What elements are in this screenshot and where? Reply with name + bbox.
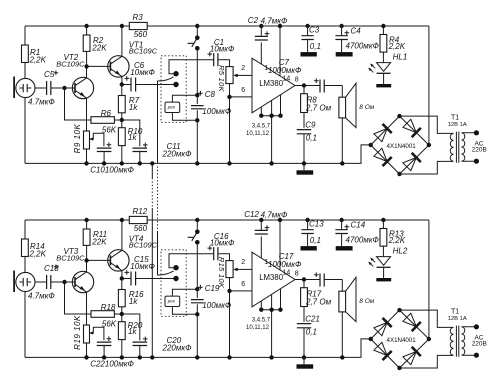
loudspeaker BA (bottom) xyxy=(339,277,375,359)
wire bridge plus to rail (bottom) xyxy=(428,220,430,339)
wire pin8 output (top) xyxy=(295,85,304,87)
wire C8 to ground (top) xyxy=(196,120,198,163)
svg-text:8 Ом: 8 Ом xyxy=(359,298,374,305)
connector pin 2 (top) xyxy=(173,82,178,87)
capacitor C17 xyxy=(268,252,342,287)
trimmer R19 xyxy=(73,315,90,360)
wire VT4 emitter (bottom) xyxy=(121,271,123,279)
svg-text:100мкФ: 100мкФ xyxy=(202,301,232,310)
wire left column (bottom) xyxy=(24,220,26,357)
trimmer R9 xyxy=(73,123,90,165)
svg-text:12В 1А: 12В 1А xyxy=(448,122,467,128)
connector socket X (top) xyxy=(161,56,186,123)
svg-text:HL1: HL1 xyxy=(393,53,408,62)
transformer T1 (top) xyxy=(448,114,479,163)
resistor R18 xyxy=(91,303,122,329)
wire VT2 emitter (top) xyxy=(86,98,88,131)
AC mains terminals 220V (bottom) xyxy=(472,334,487,347)
capacitor across R20 (bottom) xyxy=(122,314,148,360)
svg-text:12В 1А: 12В 1А xyxy=(448,316,467,322)
wire pin1 bypass (top) xyxy=(260,42,262,64)
svg-text:220мкФ: 220мкФ xyxy=(162,343,193,352)
svg-text:R6: R6 xyxy=(101,109,112,118)
bridge rectifier 4X1N4001 (top) xyxy=(369,114,432,176)
svg-text:0,1: 0,1 xyxy=(310,42,321,51)
ground symbol main (bottom) xyxy=(297,364,314,368)
wire pin1 bypass (bottom) xyxy=(260,236,262,258)
wire pin6 (bottom) xyxy=(230,290,253,292)
resistor R11 xyxy=(83,218,107,261)
ground symbol C4 (top) xyxy=(336,52,353,56)
svg-text:C13: C13 xyxy=(309,220,324,229)
wire switch to C8 (top) xyxy=(196,48,198,95)
wire recorder box top (top) xyxy=(172,95,197,102)
wire bridge AC top (bottom) xyxy=(400,310,454,327)
resistor R14 xyxy=(22,239,47,258)
svg-text:2,2K: 2,2K xyxy=(29,55,47,64)
wire R9 wiper (top) xyxy=(90,133,104,146)
svg-text:С10100мкФ: С10100мкФ xyxy=(90,165,134,174)
resistor R16 xyxy=(118,279,144,317)
wire R15 bottom to ground (bottom) xyxy=(229,291,231,358)
svg-text:C12: C12 xyxy=(244,210,259,219)
svg-text:C3: C3 xyxy=(309,26,320,35)
wire bridge AC bottom (bottom) xyxy=(400,355,454,368)
svg-text:1k: 1k xyxy=(128,327,137,336)
wire VT1 collector to rail (top) xyxy=(121,26,123,56)
wire recorder box bottom (top) xyxy=(172,113,197,121)
capacitor C5 xyxy=(28,70,62,107)
microphone BM (bottom) xyxy=(14,271,35,293)
svg-text:0,1: 0,1 xyxy=(306,327,317,336)
wire bridge AC top (top) xyxy=(400,116,454,133)
svg-text:220В: 220В xyxy=(472,147,487,154)
svg-text:560: 560 xyxy=(134,30,148,39)
transistor VT1 xyxy=(108,40,158,77)
ground symbol C13 (bottom) xyxy=(301,246,317,250)
switch SA (bottom) xyxy=(188,218,200,245)
potentiometer R5 xyxy=(217,65,233,99)
svg-text:R9 10K: R9 10K xyxy=(73,123,82,153)
resistor R2 xyxy=(83,24,107,67)
svg-text:C14: C14 xyxy=(351,221,366,230)
svg-text:2,7 Ом: 2,7 Ом xyxy=(305,298,332,307)
wire pin8 output (bottom) xyxy=(295,279,304,281)
wire R5 bottom to ground (top) xyxy=(229,97,231,163)
svg-text:100мкФ: 100мкФ xyxy=(202,107,232,116)
ground symbol main (top) xyxy=(297,170,314,174)
svg-text:2: 2 xyxy=(241,65,245,72)
wire connector pin1 to C16 (bottom) xyxy=(169,254,214,268)
recorder box (top) xyxy=(165,102,180,112)
svg-text:1k: 1k xyxy=(129,297,138,306)
svg-text:C8: C8 xyxy=(205,90,216,99)
svg-text:10мкФ: 10мкФ xyxy=(210,238,235,247)
AC mains terminals 220V (top) xyxy=(472,140,487,153)
ground symbol HL2 (bottom) xyxy=(376,278,391,281)
wire VT2 base (top) xyxy=(65,87,76,89)
dashed link between connector arms xyxy=(157,167,159,233)
svg-text:LM380: LM380 xyxy=(259,273,284,282)
wire connector pin1 to C1 (top) xyxy=(169,60,214,74)
svg-text:8: 8 xyxy=(295,77,299,84)
svg-text:R19 10K: R19 10K xyxy=(73,315,82,350)
wire switch to C19 (bottom) xyxy=(196,242,198,289)
wire C19 to ground (bottom) xyxy=(196,314,198,357)
capacitor C8 xyxy=(191,90,232,122)
svg-text:С22100мкФ: С22100мкФ xyxy=(90,359,134,368)
potentiometer R15 xyxy=(217,257,233,293)
resistor R10 xyxy=(118,120,142,166)
svg-text:10,11,12: 10,11,12 xyxy=(246,131,270,137)
feedback wire node A down (top) xyxy=(65,88,92,120)
svg-text:C9: C9 xyxy=(305,121,316,130)
svg-text:220мкФ: 220мкФ xyxy=(162,149,193,158)
capacitor C9 xyxy=(297,121,317,166)
svg-text:R15 10K: R15 10K xyxy=(217,257,226,289)
svg-text:14: 14 xyxy=(283,75,291,82)
ground symbol HL1 (top) xyxy=(376,84,391,87)
svg-text:C18: C18 xyxy=(44,264,59,273)
wire R15 wiper to pin2 (bottom) xyxy=(237,268,252,270)
op-amp IC LM380 (top) xyxy=(252,58,295,113)
svg-text:10мкФ: 10мкФ xyxy=(130,262,155,271)
connector socket X (bottom) xyxy=(161,250,186,316)
resistor R12 xyxy=(122,207,197,233)
svg-text:4X1N4001: 4X1N4001 xyxy=(387,337,417,344)
ground symbol C3 (top) xyxy=(301,52,317,56)
svg-text:6: 6 xyxy=(241,281,245,288)
wire R19 wiper (bottom) xyxy=(90,327,104,340)
capacitor C10 xyxy=(90,142,134,174)
wire bridge AC bottom (top) xyxy=(400,161,454,174)
svg-text:2,2K: 2,2K xyxy=(388,42,406,51)
capacitor C3 xyxy=(301,24,320,52)
wire connector switch arm bottom channel xyxy=(158,232,174,275)
svg-text:1000мкФ: 1000мкФ xyxy=(268,260,302,269)
resistor R6 xyxy=(91,109,122,135)
svg-text:C5: C5 xyxy=(44,70,55,79)
svg-text:BC109C: BC109C xyxy=(56,59,85,68)
capacitor C15 xyxy=(122,255,176,285)
wire ground pins 3,4,5,7,10,11,12 (bottom) xyxy=(261,289,280,358)
svg-text:R5 10K: R5 10K xyxy=(217,65,226,93)
connector pin 2 (bottom) xyxy=(173,276,178,281)
svg-text:10мкФ: 10мкФ xyxy=(210,44,235,53)
capacitor C14 xyxy=(335,218,379,246)
microphone BM (top) xyxy=(14,77,35,99)
recorder box (bottom) xyxy=(165,296,180,306)
svg-text:1k: 1k xyxy=(128,133,137,142)
svg-text:1k: 1k xyxy=(129,103,138,112)
svg-text:LM380: LM380 xyxy=(259,79,284,88)
svg-text:2,2K: 2,2K xyxy=(29,249,47,258)
capacitor C1 xyxy=(208,38,236,67)
svg-text:560: 560 xyxy=(134,224,148,233)
svg-text:C4: C4 xyxy=(351,27,362,36)
capacitor C21 xyxy=(297,315,320,360)
svg-text:0,1: 0,1 xyxy=(306,133,317,142)
svg-text:T1: T1 xyxy=(451,308,459,315)
capacitor C2 xyxy=(248,16,288,40)
svg-text:8 Ом: 8 Ом xyxy=(359,104,374,111)
capacitor C13 xyxy=(301,218,324,246)
resistor R4 xyxy=(380,24,406,52)
node A input (top) xyxy=(62,86,66,90)
wire VT4 collector to rail (bottom) xyxy=(121,220,123,250)
capacitor across R10 (top) xyxy=(122,120,148,166)
wire R5 wiper to pin2 (top) xyxy=(237,74,252,76)
svg-text:10мкФ: 10мкФ xyxy=(130,68,155,77)
resistor R3 xyxy=(122,13,197,39)
resistor R20 xyxy=(118,314,142,360)
resistor R1 xyxy=(22,45,47,64)
connector pin 1 (bottom) xyxy=(173,265,178,270)
capacitor C19 xyxy=(191,284,232,316)
capacitor C16 xyxy=(208,232,236,261)
wire pin14 Vs (bottom) xyxy=(278,218,282,222)
svg-text:R3: R3 xyxy=(133,13,144,22)
svg-text:8: 8 xyxy=(295,271,299,278)
capacitor C20 label (bottom) xyxy=(162,336,193,353)
capacitor C12 xyxy=(244,210,288,234)
ground symbol C14 (bottom) xyxy=(336,246,353,250)
capacitor C11 label (top) xyxy=(162,142,193,159)
resistor R7 xyxy=(118,85,139,123)
svg-text:6: 6 xyxy=(241,87,245,94)
svg-text:22K: 22K xyxy=(91,44,107,53)
wire VT3 base (bottom) xyxy=(65,281,76,283)
svg-text:R12: R12 xyxy=(133,207,148,216)
transformer T1 (bottom) xyxy=(448,308,479,357)
capacitor C7 xyxy=(268,58,342,93)
svg-text:4,7мкФ: 4,7мкФ xyxy=(261,211,288,220)
svg-text:10,11,12: 10,11,12 xyxy=(246,325,270,331)
node A input (bottom) xyxy=(62,280,66,284)
wire recorder box top (bottom) xyxy=(172,289,197,296)
resistor R13 xyxy=(380,218,406,246)
svg-text:4.7мкФ: 4.7мкФ xyxy=(28,292,55,301)
resistor R17 xyxy=(301,280,332,322)
svg-text:рек: рек xyxy=(167,105,176,110)
wire pin6 (top) xyxy=(230,96,253,98)
connector pin 1 (top) xyxy=(173,71,178,76)
svg-text:R18: R18 xyxy=(101,303,116,312)
capacitor C6 xyxy=(122,61,176,91)
svg-text:2,7 Ом: 2,7 Ом xyxy=(305,104,332,113)
svg-text:C21: C21 xyxy=(305,315,320,324)
svg-text:22K: 22K xyxy=(91,238,107,247)
svg-text:3,4,5,7: 3,4,5,7 xyxy=(252,317,271,323)
wire VT3 emitter (bottom) xyxy=(86,292,88,325)
svg-text:220В: 220В xyxy=(472,341,487,348)
svg-text:3,4,5,7: 3,4,5,7 xyxy=(252,123,271,129)
wire ground rail (bottom) xyxy=(25,339,371,358)
wire +V top rail (top) xyxy=(25,25,429,27)
bridge rectifier 4X1N4001 (bottom) xyxy=(369,308,432,370)
transistor VT2 xyxy=(56,53,94,99)
wire ground rail (top) xyxy=(25,145,371,164)
svg-text:0,1: 0,1 xyxy=(310,236,321,245)
feedback wire node A down (bottom) xyxy=(65,282,92,314)
wire ground pins 3,4,5,7,10,11,12 (top) xyxy=(261,95,280,164)
svg-text:рек: рек xyxy=(167,299,176,304)
wire bridge plus to rail (top) xyxy=(428,26,430,145)
LED HL2 xyxy=(368,246,407,278)
svg-text:HL2: HL2 xyxy=(393,247,408,256)
transistor VT3 xyxy=(56,247,94,293)
svg-text:C2: C2 xyxy=(248,16,259,25)
LED HL1 xyxy=(368,52,407,84)
svg-text:2: 2 xyxy=(241,259,245,266)
switch SA (top) xyxy=(188,24,200,51)
op-amp IC LM380 (bottom) xyxy=(252,252,295,307)
wire +V top rail (bottom) xyxy=(25,219,429,221)
capacitor C4 xyxy=(335,24,379,52)
loudspeaker BA (top) xyxy=(339,83,375,165)
wire VT3 collector to node C (bottom) xyxy=(86,260,88,272)
capacitor C22 xyxy=(90,336,134,368)
svg-text:1000мкФ: 1000мкФ xyxy=(268,66,302,75)
wire node C to VT1 base (top) xyxy=(87,65,111,67)
svg-text:T1: T1 xyxy=(451,114,459,121)
svg-text:4700мкФ: 4700мкФ xyxy=(346,42,380,51)
svg-text:2,2K: 2,2K xyxy=(388,236,406,245)
svg-text:BC109C: BC109C xyxy=(129,241,158,250)
svg-text:4700мкФ: 4700мкФ xyxy=(346,236,380,245)
svg-text:4X1N4001: 4X1N4001 xyxy=(387,143,417,150)
svg-text:4.7мкФ: 4.7мкФ xyxy=(28,98,55,107)
wire ground link between channels xyxy=(151,163,153,178)
svg-text:BC109C: BC109C xyxy=(129,47,158,56)
wire pin14 Vs (top) xyxy=(278,24,282,28)
svg-text:4,7мкФ: 4,7мкФ xyxy=(261,17,288,26)
wire connector switch arm top channel xyxy=(158,77,174,163)
svg-text:14: 14 xyxy=(283,269,291,276)
wire VT1 emitter (top) xyxy=(121,77,123,85)
wire left column (top) xyxy=(24,26,26,163)
resistor R8 xyxy=(301,86,332,128)
wire recorder box bottom (bottom) xyxy=(172,307,197,315)
transistor VT4 xyxy=(108,234,158,271)
wire node C to VT4 base (bottom) xyxy=(87,259,111,261)
wire VT2 collector to node C (top) xyxy=(86,66,88,78)
capacitor C18 xyxy=(28,264,62,301)
svg-text:BC109C: BC109C xyxy=(56,253,85,262)
